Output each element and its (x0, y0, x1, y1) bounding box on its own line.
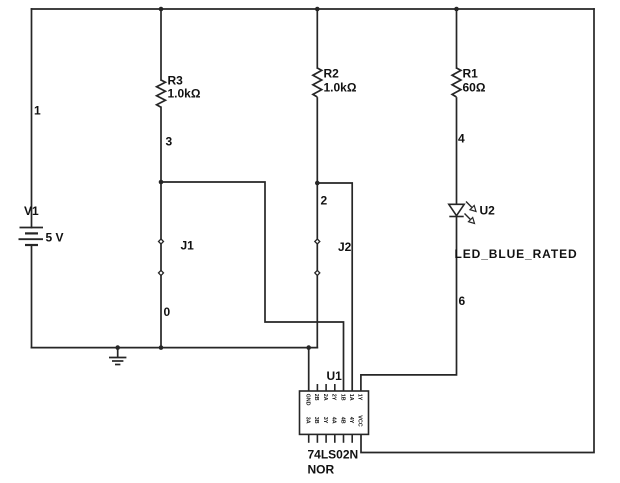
wire net 3 branch to U1 pin 1B (161, 182, 344, 391)
wire bottom rail net 0 (32, 347, 318, 349)
svg-text:2B: 2B (313, 394, 319, 401)
ground (109, 348, 126, 365)
wire net 2 branch to U1 pin 1A (317, 183, 352, 391)
pin stubs top unconnected (317, 384, 334, 391)
svg-text:U2: U2 (480, 204, 496, 218)
node top R2 (315, 7, 320, 12)
wire R3 top (160, 9, 162, 80)
pin labels top row (305, 394, 363, 406)
switch J1 (159, 239, 164, 275)
resistor R1 (452, 68, 461, 97)
wire left from top rail to battery (31, 9, 33, 228)
wire R2 bottom through J2 to bottom rail (316, 98, 318, 348)
wire top rail V1+ to R3/R2/R1 and right side (32, 8, 595, 10)
svg-text:2A: 2A (322, 394, 328, 401)
svg-text:1Y: 1Y (357, 394, 363, 401)
svg-text:60Ω: 60Ω (463, 81, 486, 95)
svg-text:U1: U1 (327, 369, 343, 383)
svg-text:2Y: 2Y (331, 394, 337, 401)
wire R3 bottom through J1 to bottom rail (160, 107, 162, 347)
wire R1 to LED anode (456, 98, 458, 204)
LED U2 (449, 202, 476, 224)
node J1 bottom tee (159, 345, 164, 350)
svg-text:1B: 1B (339, 394, 345, 401)
svg-text:5 V: 5 V (46, 231, 64, 245)
svg-text:4A: 4A (331, 417, 337, 424)
svg-text:74LS02N: 74LS02N (308, 448, 359, 462)
svg-text:2: 2 (321, 194, 328, 208)
battery V1 (19, 228, 44, 246)
node top R3 (159, 7, 164, 12)
wire right side from top rail down to VCC feed (361, 9, 594, 453)
node net3 tee (159, 180, 164, 185)
wire R2 top (316, 9, 318, 68)
resistor R2 (313, 68, 322, 97)
svg-text:GND: GND (305, 394, 311, 406)
svg-text:LED_BLUE_RATED: LED_BLUE_RATED (455, 247, 578, 261)
svg-text:4B: 4B (339, 417, 345, 424)
svg-text:6: 6 (459, 294, 466, 308)
svg-text:4: 4 (458, 132, 465, 146)
svg-text:R3: R3 (168, 74, 184, 88)
pin labels bottom row (305, 415, 363, 426)
resistor R3 (157, 80, 166, 107)
wire battery minus down to bottom rail (31, 245, 33, 348)
svg-text:4Y: 4Y (348, 417, 354, 424)
svg-text:3Y: 3Y (322, 417, 328, 424)
svg-text:1.0kΩ: 1.0kΩ (324, 81, 357, 95)
node GND drop tee (306, 345, 311, 350)
svg-text:1.0kΩ: 1.0kΩ (168, 87, 201, 101)
svg-text:1A: 1A (348, 394, 354, 401)
svg-text:VCC: VCC (357, 415, 363, 426)
op IC U1 74LS02N (300, 384, 369, 443)
svg-text:3: 3 (166, 135, 173, 149)
svg-text:3A: 3A (305, 417, 311, 424)
wire net 6 LED cathode to U1 pin 1Y (361, 217, 457, 392)
svg-text:NOR: NOR (308, 463, 335, 477)
node net2 tee (315, 181, 320, 186)
switch J2 (315, 239, 320, 275)
svg-text:V1: V1 (24, 204, 39, 218)
svg-text:R2: R2 (324, 67, 340, 81)
svg-text:3B: 3B (313, 417, 319, 424)
svg-text:1: 1 (34, 104, 41, 118)
svg-text:R1: R1 (463, 67, 479, 81)
node top R1 (454, 7, 459, 12)
svg-text:J1: J1 (181, 239, 195, 253)
svg-text:0: 0 (164, 305, 171, 319)
pin stubs bottom (309, 434, 353, 442)
node ground tee (115, 345, 120, 350)
wire net 0 drop to U1 GND pin (308, 348, 310, 391)
svg-text:J2: J2 (338, 240, 352, 254)
wire R1 top (456, 9, 458, 68)
